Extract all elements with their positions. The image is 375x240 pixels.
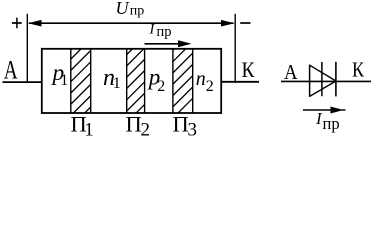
svg-text:пр: пр <box>157 24 172 40</box>
dinistor VD triangle <box>310 65 336 97</box>
label n1 <box>103 65 121 92</box>
arrow I_pr (forward current, top) <box>145 40 192 47</box>
wire anode lead (left) <box>3 81 42 83</box>
svg-text:3: 3 <box>188 120 198 140</box>
label P3 (junction) <box>173 112 198 141</box>
label p1 <box>51 60 69 89</box>
label U_pr <box>116 0 145 18</box>
label P2 (junction) <box>126 112 151 141</box>
svg-text:2: 2 <box>157 78 165 95</box>
plus terminal <box>12 18 22 29</box>
label P1 (junction) <box>71 112 94 141</box>
label I_pr (top) <box>149 22 172 41</box>
wire anode lead (thyristor symbol) <box>281 80 371 82</box>
svg-text:пр: пр <box>130 3 145 18</box>
svg-text:U: U <box>116 0 130 18</box>
svg-text:К: К <box>352 58 365 82</box>
svg-text:пр: пр <box>323 114 340 133</box>
minus terminal <box>240 22 250 24</box>
svg-text:А: А <box>4 56 18 85</box>
label n2 <box>196 68 214 95</box>
svg-text:2: 2 <box>206 78 214 95</box>
junction strip P1 (hatched) <box>69 26 93 129</box>
extension line left <box>26 14 28 83</box>
svg-text:n: n <box>196 68 206 90</box>
junction strip P3 (hatched) <box>171 17 195 120</box>
svg-text:1: 1 <box>60 72 68 89</box>
dinistor middle bar <box>321 62 323 96</box>
arrow I_pr (bottom right) <box>303 107 346 114</box>
label p2 <box>147 65 165 96</box>
junction strip P2 (hatched) <box>125 23 147 124</box>
svg-text:К: К <box>242 57 256 82</box>
dinistor cathode bar <box>335 62 337 97</box>
p-n-p-n structure box <box>42 49 221 113</box>
svg-text:П: П <box>173 112 189 137</box>
wire cathode lead (right of box) <box>221 81 259 83</box>
svg-text:П: П <box>126 112 142 137</box>
extension line right <box>234 14 236 83</box>
label I_pr (bottom) <box>315 109 340 133</box>
dimension arrow U_pr <box>28 20 235 27</box>
svg-text:А: А <box>284 60 298 84</box>
svg-text:2: 2 <box>141 120 151 140</box>
svg-text:1: 1 <box>113 75 121 92</box>
svg-text:1: 1 <box>84 120 94 140</box>
